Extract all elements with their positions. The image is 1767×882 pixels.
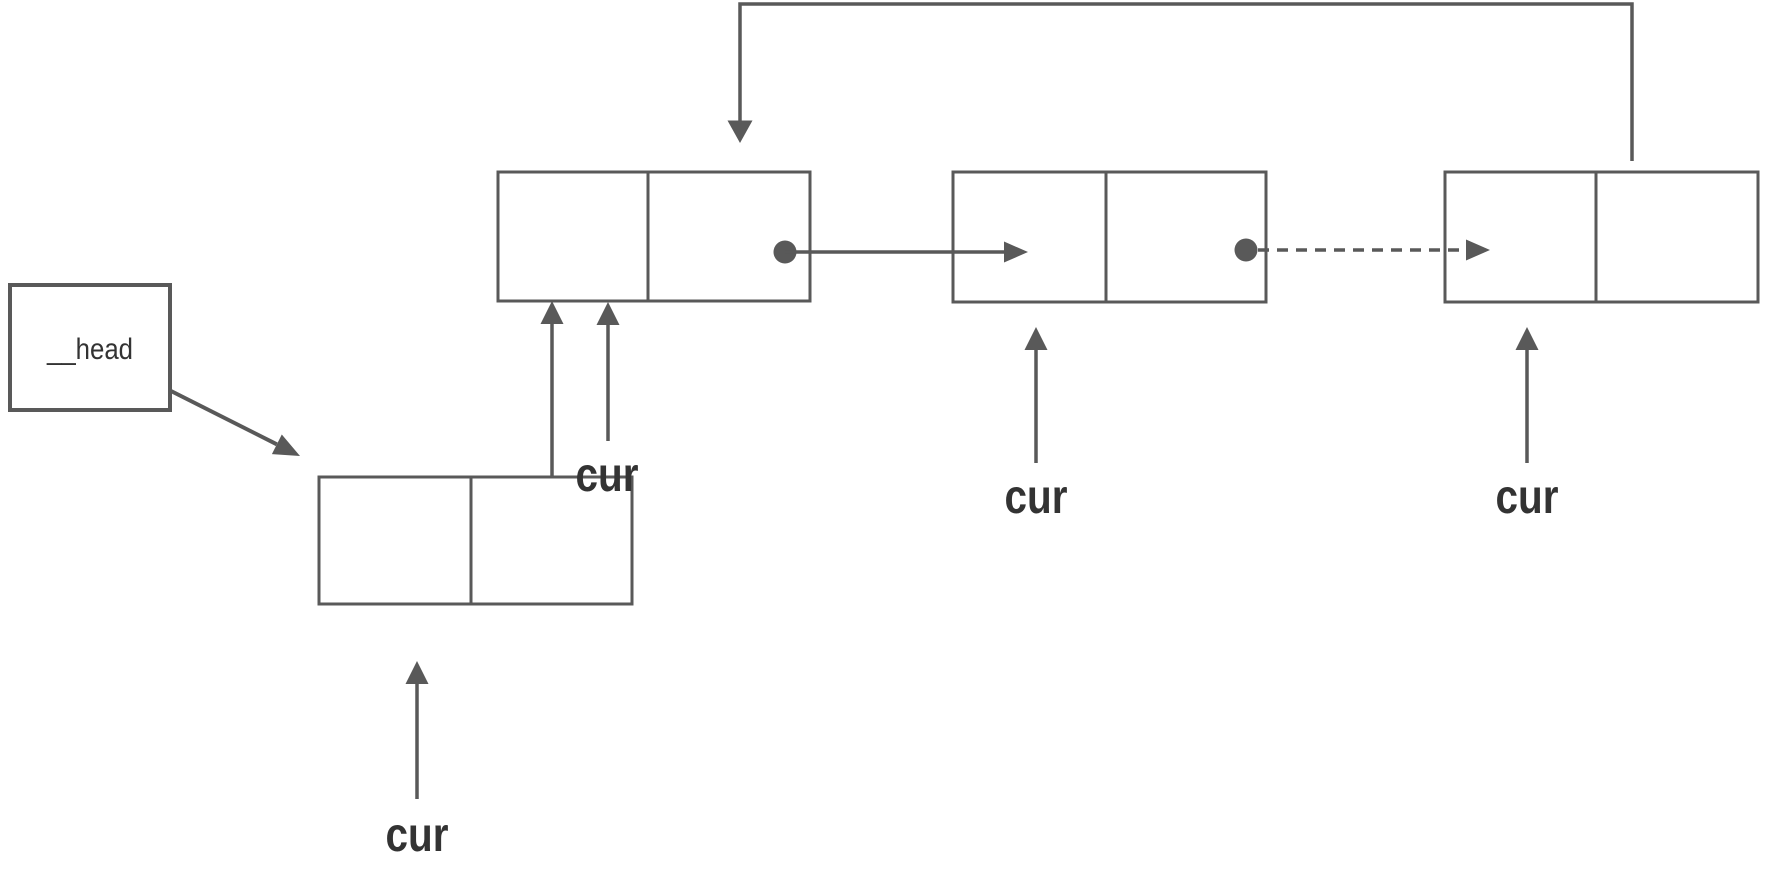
node N0 (bottom-left node, two cells)	[319, 477, 632, 604]
svg-text:cur: cur	[1496, 471, 1559, 524]
wire: loop from N3 back over the top to N1	[728, 4, 1633, 161]
arrow: cur pointer up at N2	[1025, 327, 1048, 463]
arrow: cur pointer up at N0	[406, 661, 429, 799]
node N1 (first top node, two cells)	[498, 172, 810, 301]
arrow: cur pointer long arrow up into N1 (from N0 top edge)	[541, 301, 564, 477]
svg-text:cur: cur	[386, 809, 449, 862]
svg-text:cur: cur	[1005, 471, 1068, 524]
junction dot in N1 next cell	[774, 241, 797, 264]
node N2 (middle top node, two cells)	[953, 172, 1266, 302]
arrow: cur pointer short arrow up into N1	[597, 302, 620, 441]
head box	[10, 285, 170, 410]
svg-text:cur: cur	[576, 449, 639, 502]
wire: solid arrow N1 -> N2	[785, 242, 1028, 263]
junction dot in N2 next cell	[1235, 239, 1258, 262]
wire: dashed arrow N2 -> N3	[1258, 240, 1490, 261]
node N3 (right top node, two cells)	[1445, 172, 1758, 302]
arrow: cur pointer up at N3	[1516, 327, 1539, 463]
svg-text:__head: __head	[46, 333, 133, 366]
wire: diagonal arrow from head box to first node	[171, 391, 300, 456]
